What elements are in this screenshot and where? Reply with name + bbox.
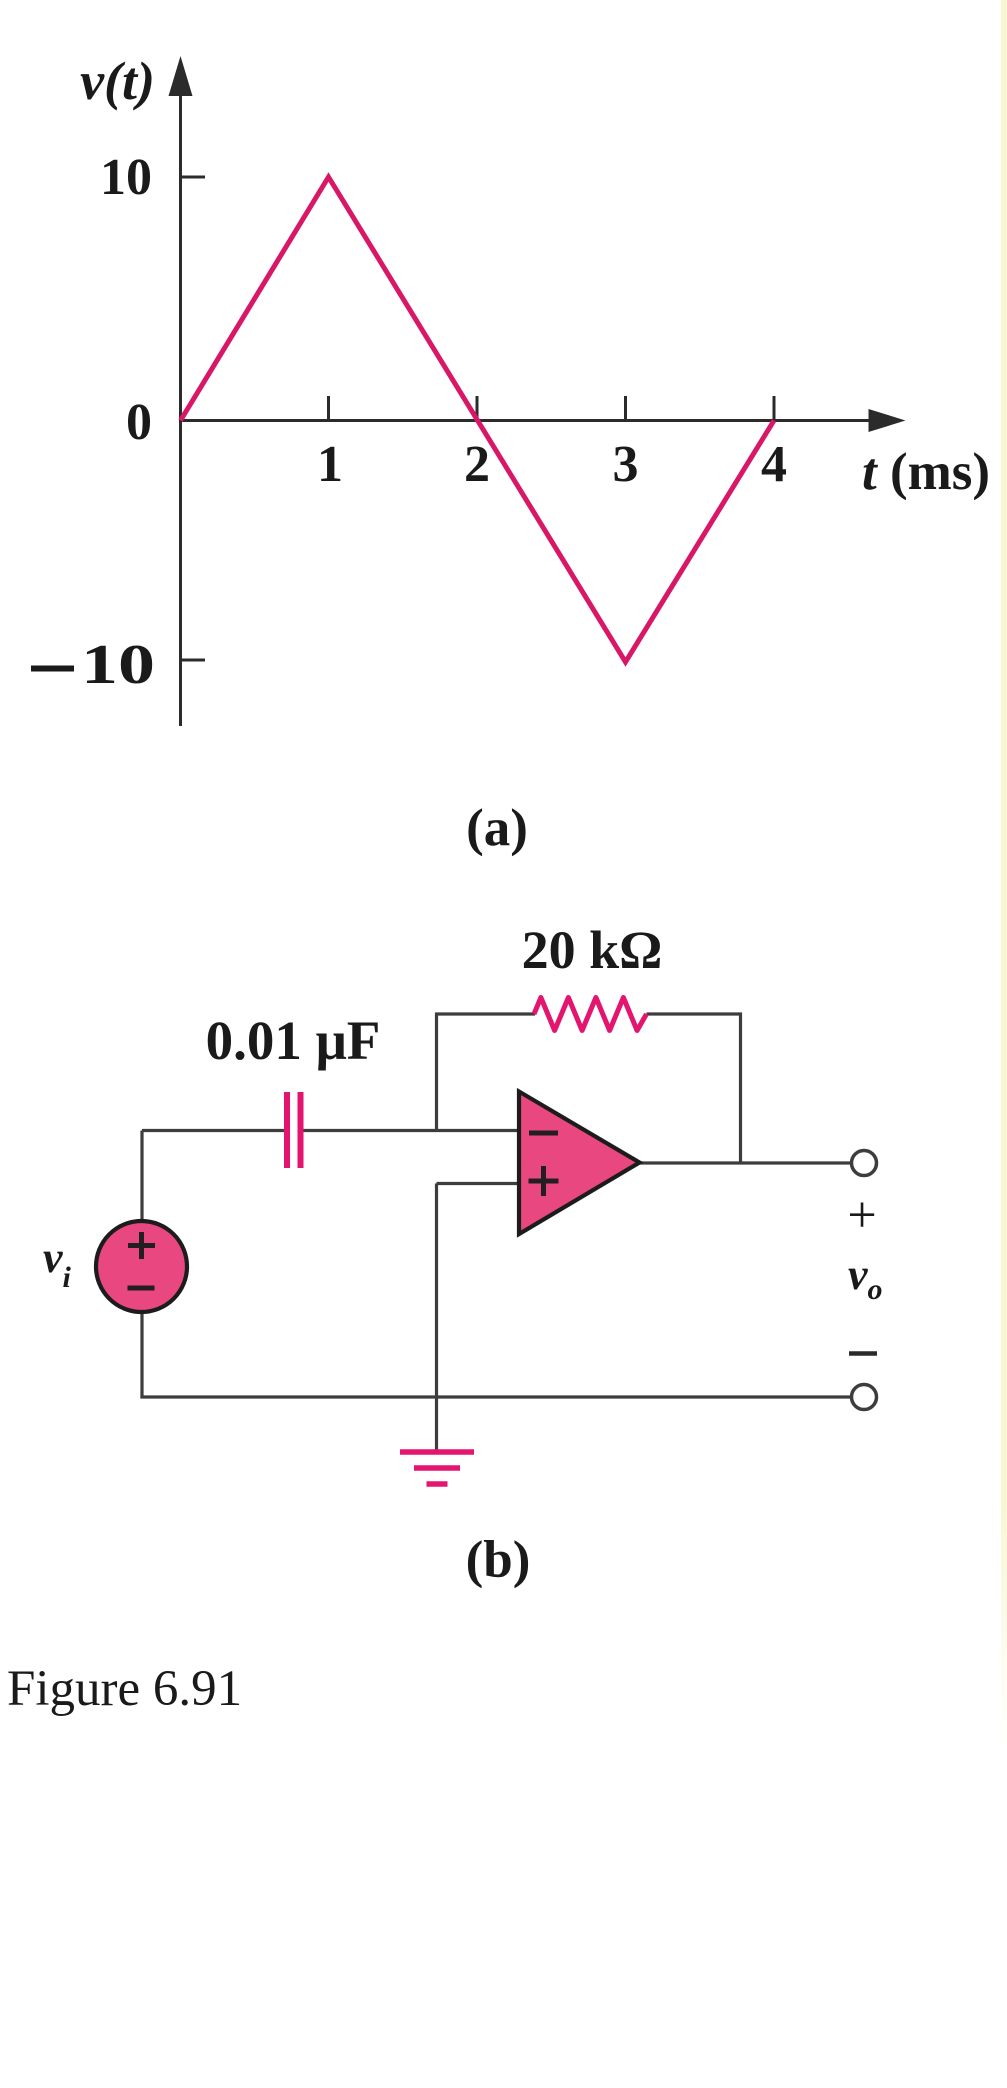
svg-text:10: 10	[100, 149, 152, 206]
y-axis	[179, 92, 182, 726]
wire: input left horizontal	[142, 1129, 284, 1132]
page edge stripe	[1001, 0, 1007, 2088]
output terminal bottom	[852, 1385, 877, 1410]
svg-text:0: 0	[126, 394, 152, 451]
svg-text:2: 2	[464, 436, 490, 493]
wire: feedback junction vertical	[435, 1013, 438, 1131]
label - (output)	[849, 1351, 877, 1356]
triangular waveform v(t)	[181, 177, 775, 662]
svg-text:v(t): v(t)	[80, 51, 155, 111]
tick t=3	[624, 396, 627, 421]
tick y=-10	[181, 659, 206, 662]
wire: bottom horizontal	[140, 1395, 851, 1398]
wire: op-amp output	[639, 1161, 852, 1164]
source minus sign	[128, 1286, 155, 1291]
svg-text:0.01 μF: 0.01 μF	[206, 1010, 381, 1071]
tick y=10	[181, 176, 206, 179]
x-axis	[181, 419, 873, 422]
op-amp minus sign	[529, 1131, 558, 1136]
svg-text:t (ms): t (ms)	[862, 443, 990, 501]
y-axis arrow	[169, 56, 193, 96]
wire: ground vertical	[435, 1184, 438, 1453]
source vi circle	[96, 1221, 187, 1312]
x-axis arrow	[869, 409, 906, 432]
output terminal top	[852, 1151, 877, 1176]
wire: source verticals	[140, 1131, 143, 1224]
wire: non-inverting input	[437, 1182, 520, 1185]
op-amp plus sign	[529, 1179, 559, 1184]
resistor 20k zigzag	[534, 998, 647, 1031]
source plus sign	[128, 1243, 155, 1248]
svg-text:1: 1	[317, 436, 343, 493]
tick t=4	[773, 396, 776, 421]
svg-text:Figure 6.91: Figure 6.91	[7, 1661, 242, 1717]
ground symbol	[400, 1449, 474, 1455]
svg-text:+: +	[847, 1187, 876, 1244]
tick t=2	[476, 396, 479, 421]
wire: feedback right vertical	[739, 1013, 742, 1164]
svg-text:(b): (b)	[466, 1531, 531, 1589]
svg-text:4: 4	[761, 436, 787, 493]
capacitor 0.01uF plates	[284, 1092, 290, 1168]
svg-text:20 kΩ: 20 kΩ	[522, 920, 663, 980]
svg-text:10: 10	[81, 634, 155, 696]
label -10	[31, 666, 74, 672]
svg-text:(a): (a)	[466, 799, 528, 857]
svg-text:3: 3	[613, 436, 639, 493]
op-amp U1	[519, 1092, 640, 1235]
wire: feedback top horizontal	[435, 1012, 535, 1015]
tick t=1	[327, 396, 330, 421]
